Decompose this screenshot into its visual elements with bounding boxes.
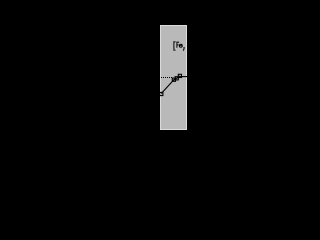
marker M1 xyxy=(160,92,163,95)
plateau data line xyxy=(180,76,188,78)
axis label letter e xyxy=(179,44,182,47)
marker M2 xyxy=(172,78,175,81)
marker M3 xyxy=(175,77,178,80)
axis label bracket [ xyxy=(174,42,176,50)
gray plot strip (cropped chart) xyxy=(160,25,187,130)
axis label comma xyxy=(182,47,185,51)
marker M4 xyxy=(178,74,181,77)
dotted plateau line xyxy=(161,77,173,79)
plot background xyxy=(160,25,187,130)
plot frame xyxy=(161,26,187,130)
axis label letter F xyxy=(177,42,179,48)
rising data line xyxy=(161,76,180,94)
